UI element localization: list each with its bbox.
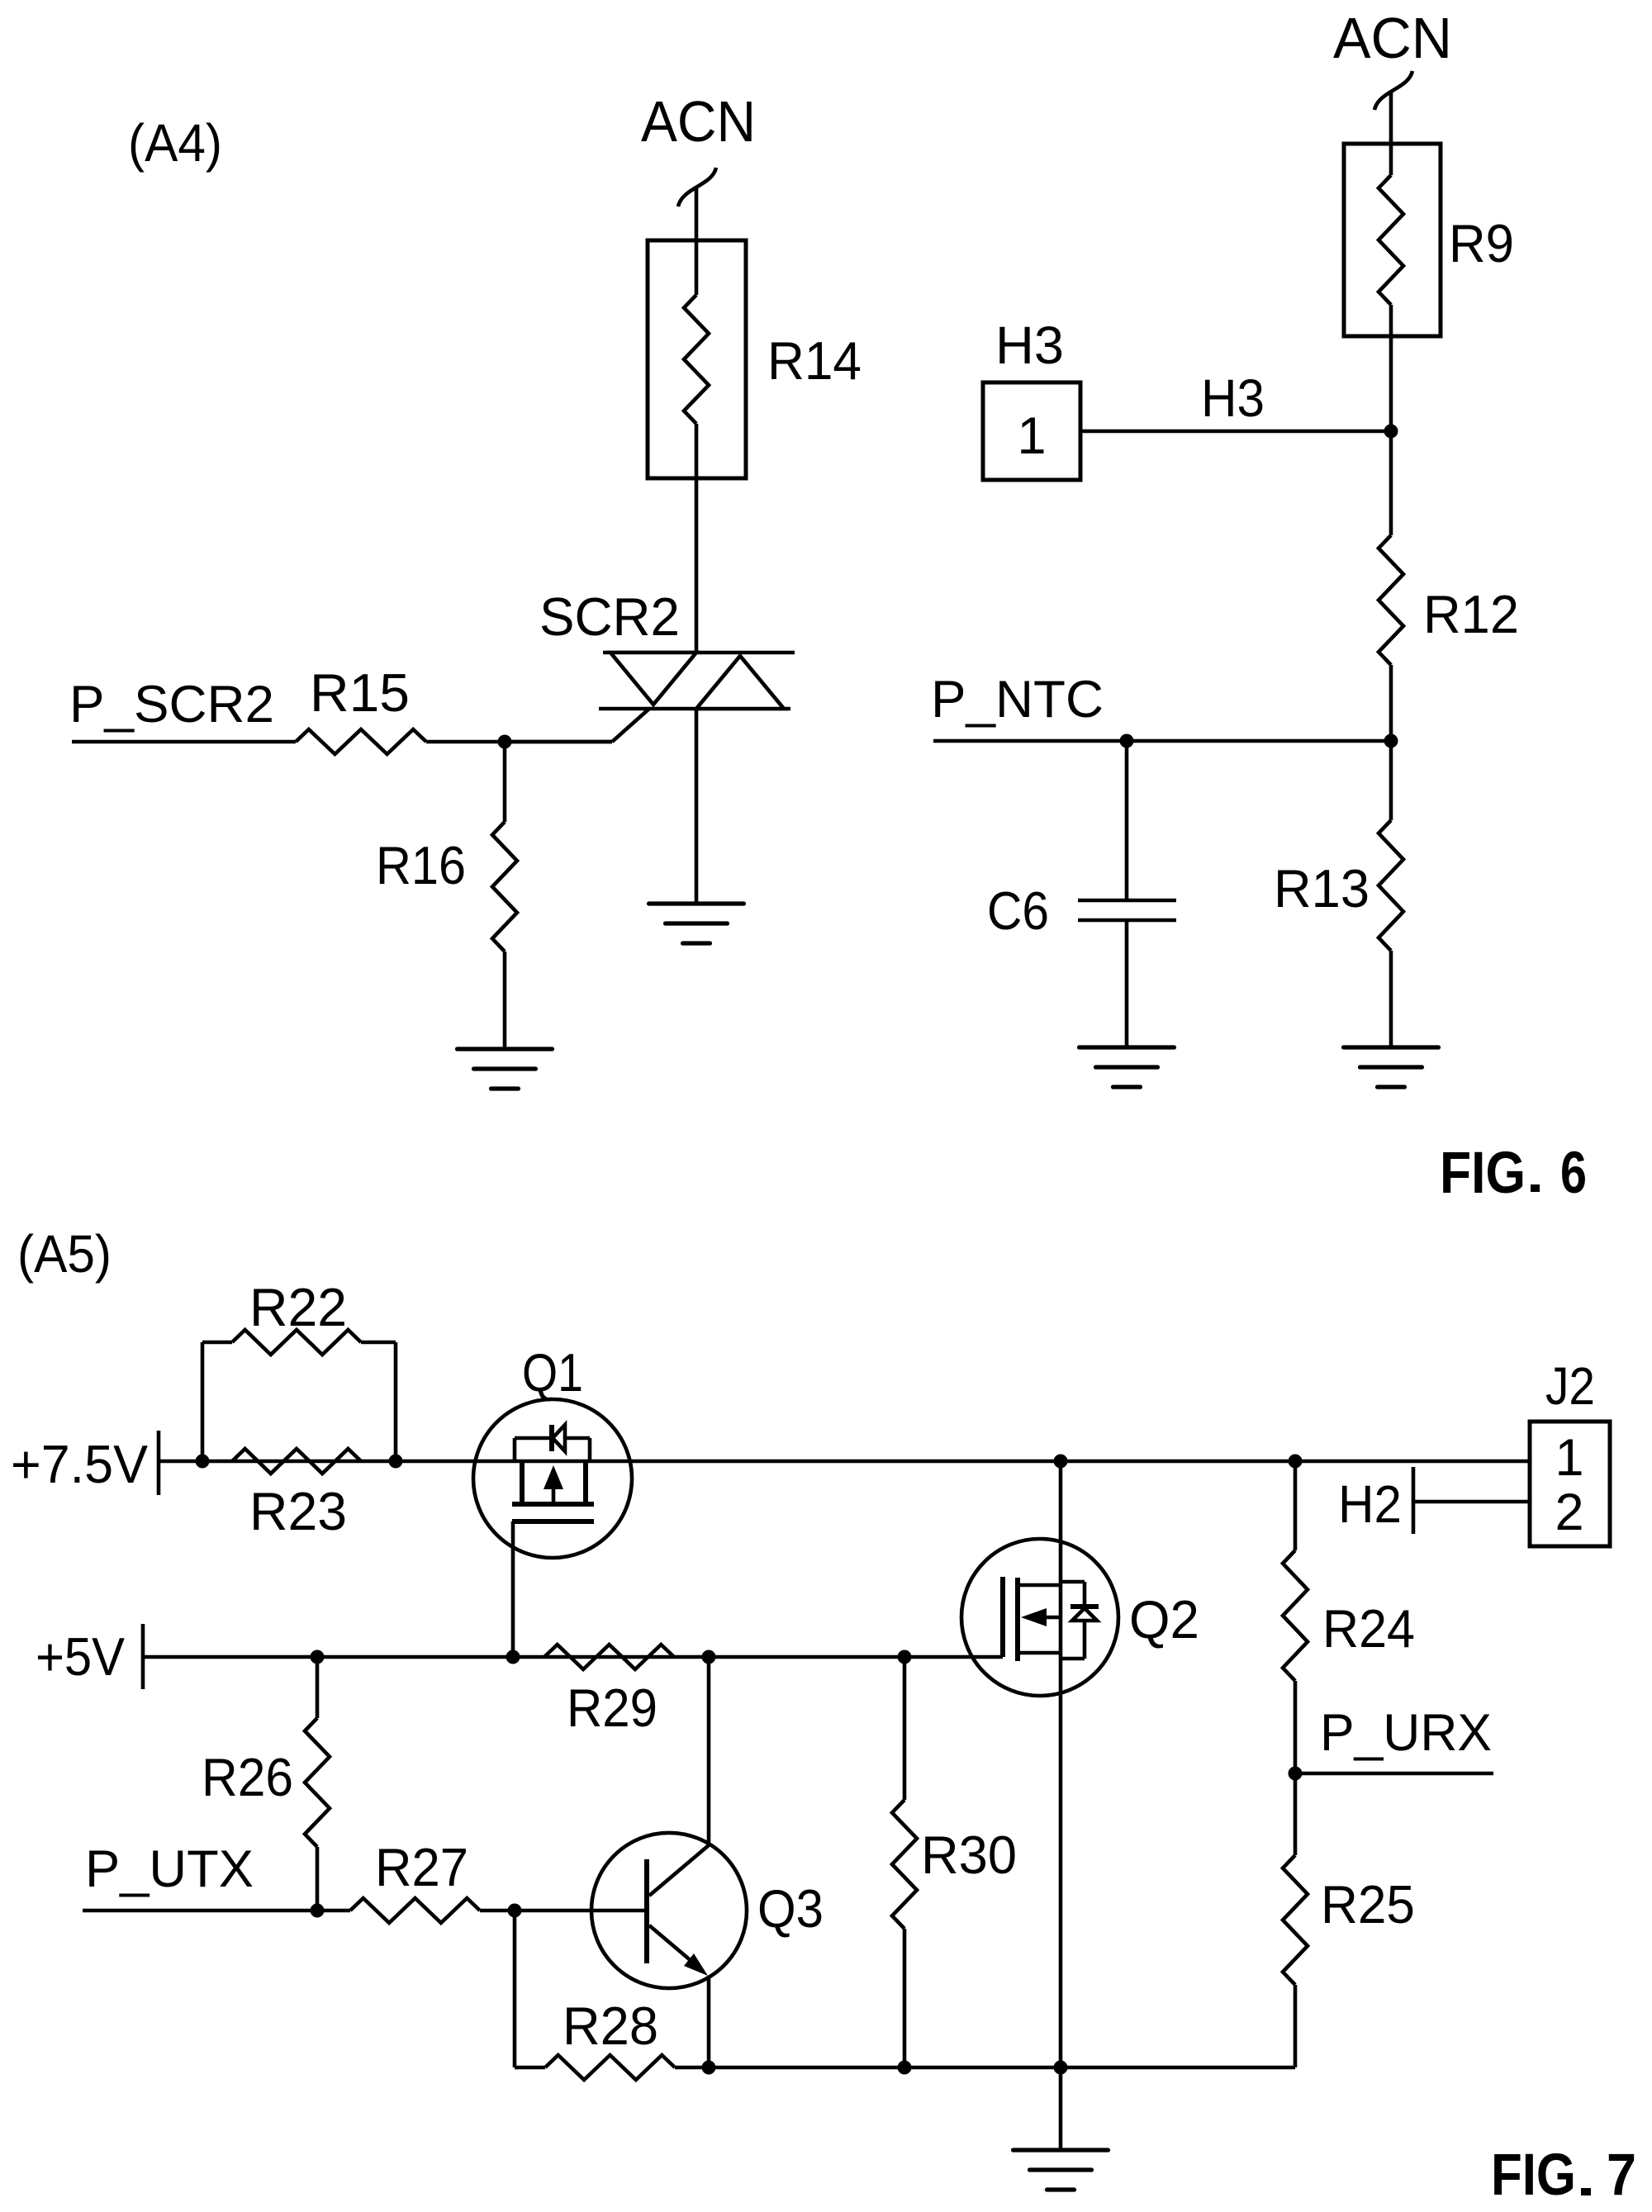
svg-text:6: 6 — [1560, 1141, 1587, 1206]
svg-text:R13: R13 — [1274, 858, 1370, 919]
svg-text:(A4): (A4) — [128, 113, 222, 173]
svg-text:C6: C6 — [987, 881, 1049, 941]
svg-text:R23: R23 — [249, 1481, 347, 1541]
svg-text:FIG: FIG — [1491, 2143, 1576, 2208]
svg-text:Q2: Q2 — [1129, 1589, 1199, 1650]
svg-text:Q3: Q3 — [757, 1878, 824, 1939]
svg-text:P_NTC: P_NTC — [931, 671, 1104, 729]
svg-text:SCR2: SCR2 — [539, 586, 680, 647]
svg-text:R16: R16 — [376, 835, 466, 895]
svg-text:H2: H2 — [1338, 1474, 1402, 1534]
svg-text:ACN: ACN — [641, 89, 756, 154]
svg-text:R28: R28 — [563, 1996, 658, 2056]
svg-text:Q1: Q1 — [522, 1342, 583, 1403]
svg-text:(A5): (A5) — [17, 1224, 112, 1284]
svg-text:J2: J2 — [1545, 1356, 1595, 1416]
svg-text:R29: R29 — [567, 1678, 657, 1738]
svg-text:H3: H3 — [1201, 368, 1265, 428]
svg-text:R26: R26 — [202, 1747, 293, 1807]
svg-text:1: 1 — [1555, 1429, 1583, 1487]
svg-text:P_URX: P_URX — [1320, 1704, 1492, 1762]
svg-text:7: 7 — [1607, 2143, 1636, 2208]
svg-text:H3: H3 — [995, 316, 1064, 375]
svg-text:1: 1 — [1017, 407, 1046, 465]
svg-text:R15: R15 — [310, 662, 410, 723]
svg-text:FIG: FIG — [1440, 1141, 1526, 1206]
svg-text:2: 2 — [1555, 1483, 1583, 1541]
svg-text:+5V: +5V — [36, 1626, 126, 1687]
svg-text:R30: R30 — [921, 1825, 1017, 1885]
svg-text:R22: R22 — [249, 1277, 347, 1337]
svg-text:R25: R25 — [1321, 1874, 1415, 1934]
svg-text:P_UTX: P_UTX — [85, 1840, 254, 1898]
svg-text:R14: R14 — [767, 330, 862, 391]
svg-text:P_SCR2: P_SCR2 — [69, 676, 274, 733]
svg-text:R9: R9 — [1449, 213, 1514, 273]
svg-text:+7.5V: +7.5V — [11, 1434, 149, 1494]
svg-text:R27: R27 — [375, 1837, 468, 1897]
svg-text:R12: R12 — [1423, 584, 1519, 644]
svg-text:ACN: ACN — [1333, 6, 1452, 70]
svg-text:R24: R24 — [1322, 1598, 1415, 1659]
